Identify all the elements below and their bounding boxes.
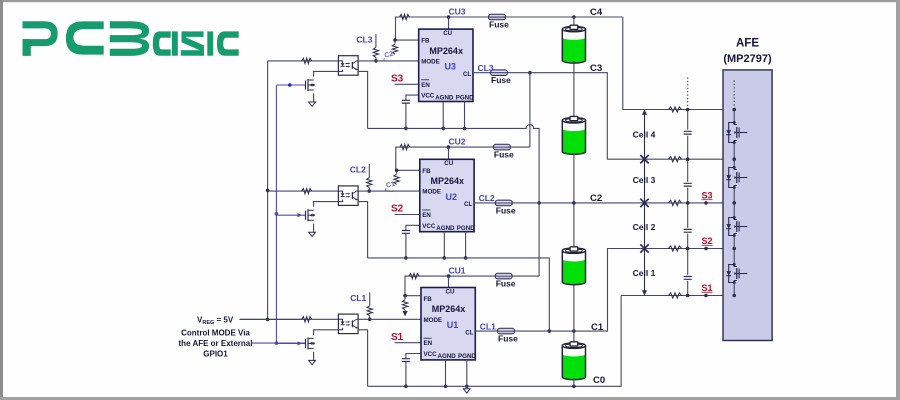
svg-text:C4: C4	[590, 7, 603, 18]
wire VREG feed	[240, 318, 303, 320]
wire rail ch2	[368, 258, 550, 331]
junction S1	[704, 294, 708, 298]
svg-text:CL: CL	[464, 201, 472, 208]
wire opto ch1 emitter drop	[358, 330, 368, 387]
dotted continuation cap column	[687, 78, 689, 108]
resistor RCU1	[409, 273, 419, 278]
wire b2-b3	[573, 153, 575, 247]
wire CL3 fuse to C3 row	[508, 72, 530, 74]
optocoupler ch1	[338, 314, 358, 334]
resistor Rin3	[302, 58, 312, 63]
svg-text:Fuse: Fuse	[498, 334, 518, 344]
arrow RFB1 end	[404, 310, 406, 314]
svg-text:MP264x: MP264x	[432, 304, 466, 314]
junction bus1-ch2	[266, 189, 270, 193]
wire AGND2	[443, 232, 445, 258]
junction CU2-C3	[528, 71, 532, 75]
battery cell1	[562, 346, 585, 380]
junction cap column	[686, 294, 690, 298]
svg-text:U2: U2	[446, 192, 458, 202]
resistor RCL2	[367, 178, 372, 188]
svg-text:Cell 2: Cell 2	[633, 222, 656, 232]
svg-text:MP264x: MP264x	[431, 176, 465, 186]
wire cap3 to rail	[405, 103, 407, 128]
ground ch2 mosfet	[309, 232, 316, 236]
svg-text:S3: S3	[391, 74, 404, 85]
resistor Rin2	[302, 188, 312, 193]
ground ch1 mosfet	[309, 360, 316, 364]
capacitor CVCC2	[402, 231, 410, 234]
junction gate ch3	[288, 83, 292, 87]
wire input row ch3	[268, 60, 339, 62]
op-amp U1 MP264x	[421, 288, 475, 360]
svg-text:PGND: PGND	[457, 225, 475, 232]
fuse F_CU2	[493, 144, 510, 150]
svg-text:EN: EN	[422, 212, 431, 219]
svg-text:FB: FB	[424, 296, 433, 303]
wire gate ch3	[276, 84, 305, 86]
junction cap3 rail	[404, 127, 408, 131]
transistor QB2	[729, 218, 735, 236]
svg-text:CL2: CL2	[350, 165, 366, 175]
junction cap column	[686, 201, 690, 205]
svg-text:CU: CU	[443, 30, 452, 37]
junction AFE chain	[732, 294, 736, 298]
junction CU3 pin	[447, 15, 451, 19]
wire opto ch2 emitter drop	[358, 202, 368, 258]
svg-text:U1: U1	[447, 320, 459, 330]
junction S3	[704, 201, 708, 205]
wire CL2 fuse to C2 row	[513, 202, 540, 204]
junction cap column	[686, 108, 690, 112]
wire CL1 stub	[369, 292, 371, 306]
svg-text:AGND: AGND	[438, 353, 457, 360]
resistor RFB1	[404, 296, 406, 300]
junction PGND3	[463, 127, 467, 131]
svg-text:Fuse: Fuse	[491, 75, 511, 85]
resistor RCU2	[400, 144, 410, 149]
wire CU3 pin drop	[448, 17, 450, 29]
junction CU1 pin	[447, 274, 451, 278]
wire MODE row ch2	[358, 190, 420, 192]
transistor QB3	[729, 168, 735, 188]
wire MODE row ch1	[358, 318, 421, 320]
resistor sense row	[669, 107, 682, 112]
wire C2 row right	[574, 202, 734, 204]
transistor QB4	[729, 123, 735, 143]
wire EN2	[395, 214, 420, 216]
wire rail ch3 with hop	[368, 125, 539, 203]
wire CL1 row junctions	[513, 330, 574, 332]
wire EN1	[395, 342, 421, 344]
junction cap2 rail	[404, 256, 408, 260]
svg-text:PGND: PGND	[458, 353, 476, 360]
capacitor Cs2	[684, 229, 692, 232]
junction PGND1	[465, 385, 469, 389]
svg-text:EN: EN	[421, 82, 430, 89]
junction S2	[704, 247, 708, 251]
junction cap column	[686, 157, 690, 161]
svg-text:CU: CU	[446, 288, 455, 295]
capacitor Cs3	[684, 183, 692, 186]
wire gate ch2	[276, 214, 305, 216]
wire VCC2	[406, 225, 420, 230]
junction cap column	[686, 247, 690, 251]
wire b4-c0	[573, 378, 575, 386]
svg-text:Cell 3: Cell 3	[633, 175, 656, 185]
wire FB2	[397, 169, 420, 171]
svg-text:AFE: AFE	[736, 38, 759, 50]
wire C4 riser	[623, 17, 734, 110]
wire PGND1	[466, 360, 468, 386]
wire source ch2	[313, 224, 315, 233]
cell span arrow X	[640, 199, 648, 207]
wire MODE row ch3	[358, 60, 419, 62]
wire C1 jog riser	[574, 249, 734, 332]
junction AGND3	[441, 127, 445, 131]
resistor sense row	[669, 157, 682, 162]
wire CU1 riser to C2	[513, 275, 540, 277]
wire AFE chain	[733, 110, 735, 123]
battery cell3	[562, 120, 585, 154]
svg-text:C0: C0	[593, 375, 605, 386]
op-amp AFE MP2797 box	[723, 70, 772, 341]
junction rail2-CL1 row	[548, 329, 552, 333]
transistor Q1	[305, 339, 307, 348]
svg-text:Fuse: Fuse	[496, 279, 516, 289]
svg-text:CU2: CU2	[449, 137, 466, 147]
resistor RCL3	[373, 47, 378, 57]
junction AGND2	[443, 256, 447, 260]
junction FB3	[393, 38, 397, 42]
capacitor CVCC1	[402, 359, 410, 362]
svg-text:S1: S1	[702, 283, 713, 293]
wire opto ch3 emitter drop	[358, 71, 368, 128]
junction cap1 rail	[404, 385, 408, 389]
svg-text:Cell 4: Cell 4	[633, 130, 656, 140]
junction CL1 MODE	[368, 318, 372, 322]
wire VCC3	[406, 95, 419, 100]
op-amp U2 MP264x	[420, 159, 474, 231]
capacitor Cs1	[684, 277, 692, 280]
dotted continuation AFE chain	[733, 81, 735, 108]
svg-text:Fuse: Fuse	[494, 150, 514, 160]
svg-text:the AFE or External: the AFE or External	[179, 339, 253, 348]
wire cap column	[687, 110, 689, 130]
junction CU2 pin	[447, 145, 451, 149]
wire CL3 row	[473, 72, 491, 74]
wire PGND2	[465, 232, 467, 258]
svg-text:MODE: MODE	[421, 58, 440, 65]
svg-text:CL3: CL3	[356, 34, 372, 44]
resistor RCL1	[367, 306, 372, 316]
fuse F_CL1	[498, 328, 515, 334]
wire drain ch1 to opto	[314, 330, 339, 335]
resistor sense row	[669, 293, 682, 298]
junction bus2-ch1 gate	[275, 341, 279, 345]
arrow gate ch1	[298, 341, 303, 345]
wire CU2 riser to C3	[529, 73, 531, 147]
junction AGND1	[444, 385, 448, 389]
resistor Rin1	[302, 317, 312, 322]
wire b3-b4	[573, 284, 575, 342]
svg-text:Fuse: Fuse	[496, 205, 516, 215]
svg-text:MODE: MODE	[424, 317, 443, 324]
svg-text:S3: S3	[702, 190, 713, 200]
junction b-c2	[572, 201, 576, 205]
junction AFE chain	[732, 108, 736, 112]
wire AGND1	[445, 360, 447, 386]
svg-text:PGND: PGND	[456, 95, 474, 102]
svg-text:CL: CL	[463, 71, 471, 78]
op-amp U3 MP264x	[419, 29, 473, 101]
junction CL2 MODE	[368, 189, 372, 193]
wire control MODE feed	[251, 342, 305, 344]
wire gate ch1	[276, 342, 305, 344]
junction AFE chain	[732, 247, 736, 251]
svg-text:CL1: CL1	[480, 321, 496, 331]
svg-text:AGND: AGND	[435, 95, 454, 102]
wire CU2 row	[396, 147, 449, 170]
cell span arrow X	[640, 155, 648, 163]
svg-text:CU: CU	[444, 160, 453, 167]
fuse F_CL2	[495, 200, 512, 206]
svg-text:EN: EN	[424, 340, 433, 347]
svg-text:Fuse: Fuse	[489, 20, 509, 30]
svg-text:Cell 1: Cell 1	[633, 268, 656, 278]
fuse F_CU3	[489, 14, 506, 20]
svg-text:FB: FB	[422, 168, 431, 175]
wire CL2 stub	[368, 164, 370, 178]
resistor RFB2	[396, 170, 398, 174]
optocoupler ch2	[338, 186, 358, 206]
junction PGND2	[464, 256, 468, 260]
wire source ch1	[313, 352, 315, 361]
svg-text:MODE: MODE	[422, 189, 441, 196]
battery cell2	[562, 251, 585, 285]
cell span arrow X	[640, 244, 648, 252]
junction FB2	[395, 169, 399, 173]
wire C0 riser row	[621, 295, 734, 297]
wire rail ch1 C0 row	[368, 296, 621, 387]
cell span arrow bottom	[642, 290, 647, 295]
resistor RCU3	[400, 14, 410, 19]
wire C3 jog riser	[574, 73, 734, 160]
junction bus2-ch2 gate	[275, 212, 279, 216]
ground main	[463, 389, 470, 393]
junction FB1	[403, 294, 407, 298]
logo PCBasic	[23, 21, 239, 56]
wire CU1 pin drop	[448, 276, 450, 287]
svg-text:S2: S2	[702, 236, 713, 246]
svg-text:FB: FB	[421, 38, 430, 45]
wire battery column	[573, 17, 575, 25]
junction AFE chain	[732, 201, 736, 205]
wire drain ch3 to opto	[314, 71, 339, 76]
svg-text:VCC: VCC	[421, 93, 435, 100]
wire CU2 pin drop	[448, 147, 450, 159]
svg-text:VCC: VCC	[424, 351, 438, 358]
junction AFE chain	[732, 157, 736, 161]
capacitor CVCC3	[402, 100, 410, 103]
capacitor Cs4	[684, 131, 692, 134]
wire AGND3	[442, 102, 444, 129]
svg-text:S1: S1	[391, 332, 404, 343]
wire cap2 to rail	[405, 233, 407, 258]
wire CL3 stub	[375, 34, 377, 48]
arrow gate ch2	[298, 213, 303, 217]
fuse F_CU1	[495, 273, 512, 279]
wire EN3	[395, 83, 419, 85]
svg-text:CL1: CL1	[350, 293, 366, 303]
svg-text:CU3: CU3	[449, 7, 466, 17]
svg-text:S2: S2	[391, 204, 404, 215]
fuse F_CL3	[491, 70, 508, 76]
transistor Q3	[305, 81, 307, 90]
wire C3 row to battery	[530, 72, 574, 74]
wire CL1 row	[475, 330, 497, 332]
junction CU1-C2	[537, 201, 541, 205]
wire CL2 row	[474, 202, 495, 204]
junction battery C4	[572, 15, 576, 19]
wire CU1 row	[405, 276, 449, 296]
svg-text:Control MODE Via: Control MODE Via	[181, 329, 250, 338]
wire cap1 to rail	[405, 362, 407, 387]
wire FB3	[395, 39, 419, 41]
svg-text:VCC: VCC	[422, 223, 436, 230]
optocoupler ch3	[338, 56, 358, 75]
border frame	[0, 0, 900, 2]
svg-text:U3: U3	[444, 62, 456, 72]
wire input row ch2	[268, 190, 339, 192]
wire bus1 vertical VREG	[267, 61, 269, 320]
wire CU3 row	[396, 17, 449, 40]
transistor QB1	[729, 265, 735, 283]
svg-text:GPIO1: GPIO1	[203, 350, 228, 359]
wire b1-b2	[573, 61, 575, 117]
transistor Q2	[305, 211, 307, 220]
wire CU3 row to C4	[506, 16, 623, 18]
junction bus1-ch1	[266, 318, 270, 322]
svg-text:(MP2797): (MP2797)	[723, 53, 772, 65]
battery cell4 top	[562, 29, 585, 63]
svg-text:AGND: AGND	[436, 225, 455, 232]
resistor RFB3	[394, 40, 396, 44]
resistor sense row	[669, 246, 682, 251]
resistor sense row	[669, 200, 682, 205]
svg-text:MP264x: MP264x	[429, 46, 463, 56]
wire source ch3	[313, 93, 315, 102]
cell span arrow line	[644, 110, 646, 296]
junction battery C0	[572, 385, 576, 389]
svg-text:CU1: CU1	[449, 266, 466, 276]
wire drain ch2 to opto	[314, 202, 339, 207]
ground ch3 mosfet	[309, 102, 316, 106]
wire bus2 vertical MODE control	[275, 85, 277, 343]
junction CL3 MODE	[374, 59, 378, 63]
wire input row ch1	[240, 318, 339, 320]
wire FB1	[405, 295, 421, 297]
svg-text:CL: CL	[465, 329, 473, 336]
wire PGND3	[464, 102, 466, 129]
wire VCC1	[406, 354, 421, 359]
wire C2 row battery segment	[539, 202, 574, 204]
svg-text:CL2: CL2	[479, 193, 495, 203]
